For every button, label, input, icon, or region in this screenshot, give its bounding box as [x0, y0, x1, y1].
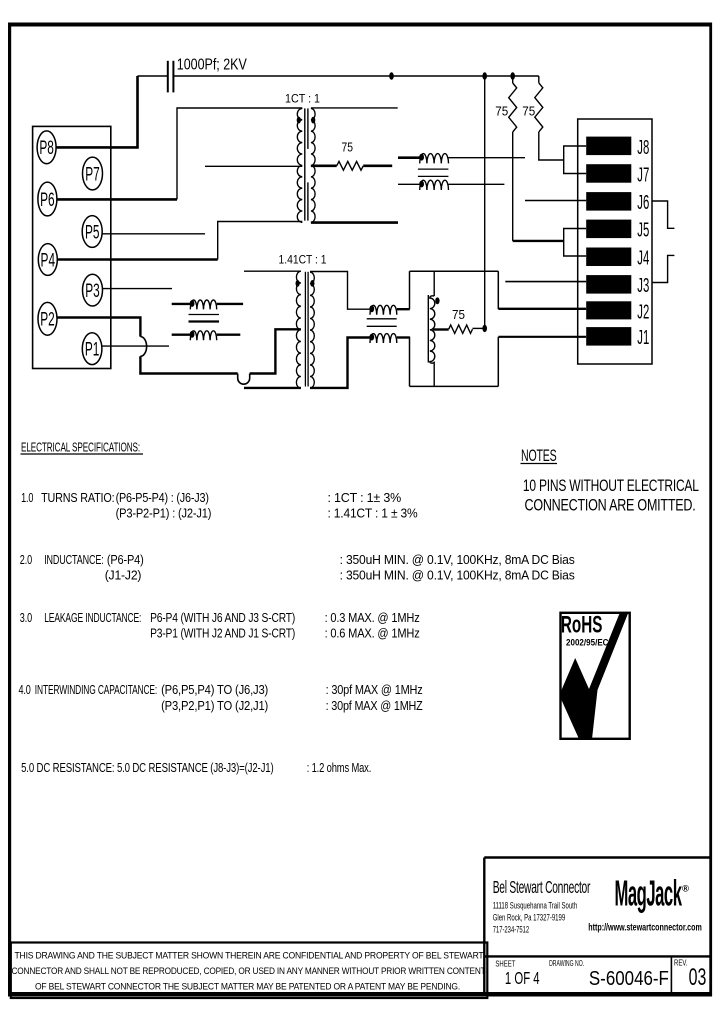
pin P6: [38, 182, 57, 216]
svg-text:717-234-7512: 717-234-7512: [493, 924, 530, 935]
autotransformer T3 winding: [428, 271, 435, 386]
svg-text:2002/95/EC: 2002/95/EC: [566, 638, 609, 649]
choke L1 core: [418, 169, 449, 176]
svg-text:P8: P8: [39, 138, 54, 159]
svg-text:INDUCTANCE:: INDUCTANCE:: [44, 552, 103, 567]
svg-text:Bel Stewart Connector: Bel Stewart Connector: [493, 877, 591, 897]
pin J4: [586, 248, 631, 267]
choke L1 bottom coil: [398, 180, 504, 190]
resistor R3 75 (J5-J4 termination): [535, 76, 564, 160]
svg-text:(P6,P5,P4) TO (J6,J3): (P6,P5,P4) TO (J6,J3): [161, 682, 268, 697]
pin J3: [586, 275, 631, 294]
svg-text:: 350uH MIN. @ 0.1V, 100KHz, 8: : 350uH MIN. @ 0.1V, 100KHz, 8mA DC Bias: [340, 552, 576, 567]
pin J6: [586, 192, 631, 211]
svg-text:TURNS RATIO:: TURNS RATIO:: [41, 490, 114, 505]
choke L2 core: [189, 315, 220, 322]
pin P3: [83, 274, 103, 306]
wire to J1: [498, 336, 586, 338]
choke L1 bottom coil dot: [419, 181, 424, 188]
pin J1: [586, 327, 631, 346]
choke L3 top coil: [370, 305, 410, 314]
node shield box junction: [482, 325, 487, 332]
svg-text:J1: J1: [637, 327, 649, 349]
svg-text:(P6-P5-P4) : (J6-J3): (P6-P5-P4) : (J6-J3): [116, 490, 209, 505]
choke L3 bottom coil: [370, 334, 410, 343]
pin J7: [586, 164, 631, 183]
svg-text:P1: P1: [85, 340, 100, 361]
node rail-A: [389, 72, 394, 79]
capacitor C1 1000Pf 2KV: [138, 61, 174, 93]
transformer T1 core: [305, 108, 308, 220]
node rail-B: [482, 72, 487, 79]
svg-text:1000Pf; 2KV: 1000Pf; 2KV: [177, 57, 247, 74]
wire top rail: [173, 75, 538, 77]
svg-text:J5: J5: [637, 220, 649, 242]
svg-text:(J1-J2): (J1-J2): [105, 568, 142, 583]
choke L2 top coil: [172, 300, 243, 309]
disclaimer text: [12, 951, 487, 992]
svg-text:LEAKAGE INDUCTANCE:: LEAKAGE INDUCTANCE:: [44, 610, 141, 625]
svg-text:THIS DRAWING AND THE SUBJECT M: THIS DRAWING AND THE SUBJECT MATTER SHOW…: [15, 951, 485, 961]
transformer T2 secondary phase dot: [310, 280, 314, 287]
transformer T1 secondary phase dot: [311, 117, 315, 124]
svg-text:http://www.stewartconnector.co: http://www.stewartconnector.com: [588, 922, 702, 934]
svg-text:4.0: 4.0: [19, 682, 31, 697]
resistor R1 75 (T1 tap): [311, 161, 392, 170]
svg-text:S-60046-F: S-60046-F: [589, 967, 669, 990]
connector J right notch lower: [652, 255, 674, 282]
svg-text:03: 03: [689, 964, 707, 991]
svg-text:NOTES: NOTES: [521, 447, 557, 465]
svg-text:3.0: 3.0: [20, 610, 32, 625]
wire T1 secondary bottom lead: [311, 221, 398, 224]
svg-text:SHEET: SHEET: [495, 958, 515, 968]
svg-text:J3: J3: [637, 275, 649, 297]
RoHS logo box: [561, 613, 630, 739]
svg-text:OF BEL STEWART CONNECTOR THE: OF BEL STEWART CONNECTOR THE SUBJECT MAT…: [35, 982, 460, 992]
svg-text:P2: P2: [40, 310, 55, 331]
svg-text:75: 75: [495, 104, 508, 118]
choke L3 top coil dot: [369, 305, 374, 312]
svg-text:75: 75: [522, 104, 535, 118]
svg-text:1.0: 1.0: [21, 490, 33, 505]
transformer T2 core: [305, 272, 308, 387]
pin P2: [38, 302, 57, 335]
pin P4: [38, 244, 57, 276]
disclaimer box: [11, 943, 488, 999]
wire P3 stub: [103, 288, 173, 290]
svg-text:1.41CT : 1: 1.41CT : 1: [279, 255, 327, 267]
connector P box: [33, 126, 111, 368]
pin J2: [586, 301, 631, 319]
svg-text:INTERWINDING CAPACITANCE:: INTERWINDING CAPACITANCE:: [35, 682, 157, 697]
wire to J3: [505, 281, 586, 283]
wire P5 stub: [102, 233, 205, 235]
svg-text:J7: J7: [637, 164, 649, 186]
wire T1 secondary top lead: [311, 107, 398, 109]
svg-text:(P6-P4): (P6-P4): [107, 552, 144, 567]
svg-text:: 350uH MIN. @ 0.1V, 100KHz, 8: : 350uH MIN. @ 0.1V, 100KHz, 8mA DC Bias: [340, 568, 576, 583]
resistor R4 75 (in shield box): [433, 325, 485, 333]
shield box T3 outline: [410, 271, 499, 386]
wire P6 to T1 top: [57, 108, 302, 199]
wire T2 secondary bottom to choke L3: [310, 338, 370, 388]
wire rail node B down to lower box: [484, 76, 486, 328]
wire T2 primary bottom lead: [244, 387, 301, 389]
svg-text:(P3-P2-P1) : (J2-J1): (P3-P2-P1) : (J2-J1): [116, 505, 212, 520]
svg-text:REV.: REV.: [674, 958, 688, 968]
svg-text:J2: J2: [637, 301, 649, 323]
svg-text:CONNECTION ARE OMITTED.: CONNECTION ARE OMITTED.: [525, 497, 696, 515]
svg-text:: 1.41CT : 1 ± 3%: : 1.41CT : 1 ± 3%: [328, 505, 419, 520]
TEXT: notes: [521, 447, 699, 515]
svg-text:P3-P1 (WITH J2 AND J1 S-CRT): P3-P1 (WITH J2 AND J1 S-CRT): [150, 626, 295, 641]
wire P4 to T1 bottom: [57, 222, 302, 260]
choke L2 bottom coil dot: [190, 331, 195, 338]
connector J box: [578, 119, 652, 364]
svg-text:: 0.6 MAX. @ 1MHz: : 0.6 MAX. @ 1MHz: [325, 626, 420, 641]
choke L3 bottom coil dot: [369, 334, 374, 341]
pin P8: [37, 131, 56, 164]
svg-text:75: 75: [452, 308, 465, 322]
wire T2 secondary top to choke L3: [310, 272, 370, 310]
svg-text:J4: J4: [637, 248, 649, 270]
resistor R2 75 (J8-J7 termination): [509, 76, 564, 241]
svg-text:: 1CT : 1± 3%: : 1CT : 1± 3%: [328, 490, 402, 505]
svg-text:1CT : 1: 1CT : 1: [285, 94, 320, 106]
svg-text:11118 Susquehanna Trail South: 11118 Susquehanna Trail South: [493, 901, 578, 912]
svg-text:P6: P6: [40, 190, 55, 211]
pin J8: [586, 137, 631, 156]
wire T2 primary top lead: [244, 270, 301, 272]
node rail-C: [510, 72, 515, 79]
wire bracket J5-J4: [564, 229, 587, 257]
svg-text:DRAWING NO.: DRAWING NO.: [549, 958, 584, 968]
choke L1 top coil dot: [419, 154, 424, 161]
svg-text:1 OF 4: 1 OF 4: [505, 968, 540, 988]
svg-text:P3: P3: [85, 281, 100, 302]
wire to J2: [498, 308, 586, 310]
svg-text:: 30pf MAX @ 1MHz: : 30pf MAX @ 1MHz: [326, 682, 423, 697]
svg-text:(P3,P2,P1) TO (J2,J1): (P3,P2,P1) TO (J2,J1): [161, 698, 268, 713]
svg-text:5.0 DC RESISTANCE: 5.0 DC RESI: 5.0 DC RESISTANCE: 5.0 DC RESISTANCE (J8…: [21, 760, 273, 775]
wire P2 to T2 tap with hop over P1 wire: [57, 318, 301, 385]
svg-text:: 1.2 ohms Max.: : 1.2 ohms Max.: [307, 760, 372, 775]
svg-text:RoHS: RoHS: [561, 612, 603, 639]
svg-text:: 30pf MAX @ 1MHZ: : 30pf MAX @ 1MHZ: [326, 698, 423, 713]
autotransformer T3 phase dot: [435, 297, 439, 304]
wire to J6: [525, 200, 586, 202]
svg-text:P7: P7: [85, 164, 100, 185]
svg-text:P4: P4: [41, 250, 56, 271]
svg-text:J6: J6: [637, 192, 649, 214]
svg-text:: 0.3 MAX. @ 1MHz: : 0.3 MAX. @ 1MHz: [325, 610, 420, 625]
transformer T2 secondary winding: [310, 272, 314, 388]
title block outline: [484, 858, 711, 994]
svg-text:75: 75: [342, 140, 354, 154]
transformer T1 primary winding: [297, 108, 302, 222]
transformer T2 primary winding: [296, 271, 301, 388]
wire P1 stub: [102, 345, 169, 347]
choke L2 bottom coil: [172, 331, 241, 340]
choke L1 top coil: [398, 154, 525, 164]
svg-text:J8: J8: [637, 137, 649, 159]
svg-text:10 PINS WITHOUT ELECTRICAL: 10 PINS WITHOUT ELECTRICAL: [523, 477, 699, 495]
svg-text:Glen Rock, Pa 17327-9199: Glen Rock, Pa 17327-9199: [493, 913, 566, 924]
wire P8 to capacitor: [56, 76, 137, 147]
svg-text:CONNECTOR AND SHALL NOT BE REP: CONNECTOR AND SHALL NOT BE REPRODUCED, C…: [12, 966, 487, 976]
wire bracket J8-J7: [564, 146, 587, 174]
svg-text:P5: P5: [85, 222, 100, 243]
svg-text:2.0: 2.0: [20, 552, 32, 567]
svg-text:P6-P4 (WITH J6 AND J3 S-CRT): P6-P4 (WITH J6 AND J3 S-CRT): [150, 610, 295, 625]
transformer T1 primary phase dot: [297, 117, 301, 124]
svg-text:ELECTRICAL SPECIFICATIONS:: ELECTRICAL SPECIFICATIONS:: [21, 440, 140, 455]
choke L3 core: [367, 319, 397, 327]
svg-text:MagJack: MagJack: [615, 873, 683, 914]
svg-text:®: ®: [682, 884, 689, 895]
connector J right notch upper: [652, 201, 674, 228]
pin P5: [82, 216, 102, 248]
pin J5: [586, 220, 631, 239]
RoHS checkmark: [562, 614, 629, 740]
pin P1: [82, 333, 102, 365]
choke L2 top coil dot: [190, 300, 195, 307]
pin P7: [83, 157, 103, 190]
wire T1 center tap left: [205, 165, 302, 167]
SCHEMATIC AREA: [33, 126, 111, 368]
transformer T1 secondary winding: [311, 108, 315, 222]
TEXT: electrical specifications: [19, 440, 576, 776]
transformer T2 primary phase dot: [296, 280, 300, 287]
